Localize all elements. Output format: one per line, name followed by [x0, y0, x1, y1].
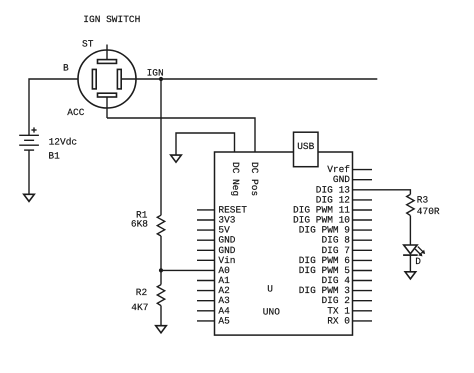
- svg-text:USB: USB: [297, 141, 314, 152]
- wire IGN: switch to right: [121, 78, 377, 80]
- wire R3 to LED: [409, 216, 411, 245]
- wire ACC: switch to DC Pos: [107, 118, 255, 152]
- ignition switch S1: [78, 45, 136, 119]
- svg-text:ACC: ACC: [67, 107, 84, 118]
- svg-text:R3: R3: [417, 195, 429, 206]
- svg-text:4K7: 4K7: [131, 302, 148, 313]
- resistor R3: [407, 194, 414, 215]
- wire LED to ground: [409, 255, 411, 272]
- svg-text:DC Pos: DC Pos: [249, 162, 260, 196]
- battery B1: [19, 127, 39, 150]
- ground (LED): [405, 272, 416, 279]
- svg-text:A5: A5: [218, 315, 230, 326]
- svg-text:6K8: 6K8: [131, 218, 148, 229]
- svg-text:B1: B1: [48, 150, 60, 161]
- left pin labels: [218, 204, 247, 326]
- ground (battery): [24, 194, 35, 201]
- svg-text:R2: R2: [136, 287, 148, 298]
- wire node A to pin A0: [161, 269, 215, 271]
- svg-text:U: U: [267, 283, 273, 294]
- USB connector: [294, 132, 319, 167]
- resistor R1: [157, 215, 164, 236]
- svg-text:ST: ST: [82, 39, 94, 50]
- LED D: [403, 245, 425, 256]
- ground (R2): [156, 326, 167, 333]
- svg-text:IGN SWITCH: IGN SWITCH: [83, 14, 140, 25]
- svg-text:470R: 470R: [417, 206, 440, 217]
- svg-text:D: D: [415, 256, 421, 267]
- wire R2 to ground: [160, 306, 162, 326]
- svg-text:12Vdc: 12Vdc: [49, 137, 78, 148]
- wire B: battery to switch: [29, 79, 93, 135]
- ground (DC Neg): [171, 155, 182, 162]
- right pin stubs: [353, 170, 373, 321]
- wire DIG 13 to R3: [353, 190, 411, 195]
- wire ground to DC Neg: [176, 133, 235, 155]
- svg-text:B: B: [63, 62, 69, 73]
- wire battery to ground: [28, 150, 30, 194]
- svg-text:RX 0: RX 0: [327, 315, 350, 326]
- svg-text:IGN: IGN: [147, 67, 164, 78]
- wire R1 to node A: [160, 236, 162, 285]
- right pin labels: [293, 164, 350, 326]
- svg-text:DC Neg: DC Neg: [230, 162, 241, 196]
- left pin stubs: [197, 210, 215, 321]
- svg-text:UNO: UNO: [263, 307, 280, 318]
- node A junction: [159, 268, 163, 272]
- node IGN junction: [159, 77, 163, 81]
- wire IGN node down to R1: [160, 79, 162, 215]
- IC U Arduino UNO body: [215, 152, 353, 335]
- resistor R2: [157, 285, 164, 306]
